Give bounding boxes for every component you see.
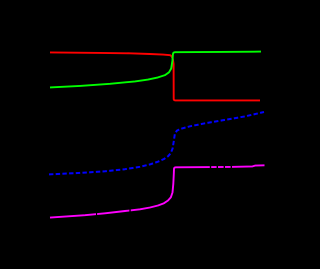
blue curve (dashed): rises with steep step at transition [49,112,264,174]
magenta curve (dash-dot, near-solid): rises with steep step at transition [50,165,265,217]
green curve (solid): lower branch rising then jump to upper branch [50,52,261,88]
red curve (solid): upper branch then drop to lower branch [50,52,260,100]
magenta dash gaps (tiny notches) [96,166,232,216]
